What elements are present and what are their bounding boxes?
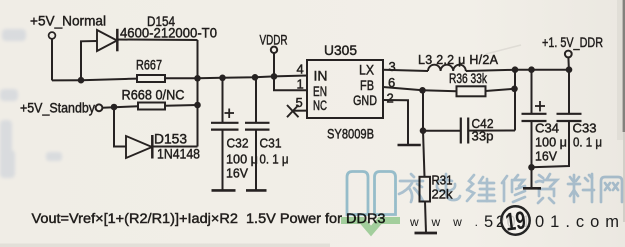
node +5V_Standby terminal (96, 104, 103, 111)
watermark char 电 (437, 174, 460, 200)
watermark char 维 (467, 175, 495, 201)
wire R31 top lead (423, 131, 425, 177)
svg-text:Vout=Vref×[1+(R2/R1)]+Iadj×R2: Vout=Vref×[1+(R2/R1)]+Iadj×R2 1.5V Power… (32, 211, 386, 226)
svg-text:+5V_Normal: +5V_Normal (30, 13, 106, 29)
wire standby to R668 (102, 106, 138, 108)
svg-text:2: 2 (387, 90, 394, 105)
svg-text:100 μ: 100 μ (535, 135, 567, 150)
ic U305 body (307, 60, 383, 118)
watermark char 修 (502, 175, 525, 202)
svg-text:+5V_Standby: +5V_Standby (20, 100, 95, 116)
node junction LX/C34 (528, 66, 535, 73)
svg-text:U305: U305 (324, 42, 357, 58)
wire R668 to bus (165, 104, 198, 107)
node junction C34/C33 bottom (528, 164, 535, 171)
svg-text:SY8009B: SY8009B (327, 126, 374, 142)
svg-text:VDDR: VDDR (260, 32, 288, 48)
wire C33 link (532, 121, 570, 167)
resistor R36 (457, 86, 486, 96)
wire VDDR down (273, 53, 275, 76)
resistor R31 (420, 177, 431, 202)
watermark char 网 (601, 177, 622, 202)
wire C31 top lead (255, 77, 257, 123)
capacitor C32 (211, 122, 239, 124)
wire vertical bus x198 (197, 40, 199, 147)
node junction rail/C32 (219, 75, 226, 82)
svg-text:D153: D153 (154, 131, 187, 147)
wire D154 anode riser (81, 41, 97, 80)
watermark char 资 (536, 174, 557, 203)
svg-text:4600-212000-T0: 4600-212000-T0 (120, 25, 217, 41)
svg-text:C33: C33 (573, 121, 597, 136)
wire R36 to vertical (486, 89, 515, 91)
capacitor C42 (460, 118, 462, 144)
svg-text:R668 0/NC: R668 0/NC (122, 87, 185, 103)
wire LX output line (466, 70, 515, 71)
pin 5 X mark (287, 105, 299, 117)
watermark char 料 (568, 174, 594, 202)
svg-text:16V: 16V (535, 149, 557, 164)
node +1.5V_DDR terminal (565, 51, 572, 58)
faint diagonal smudge (486, 45, 521, 54)
wire C42 right lead (468, 130, 515, 132)
pin 5 NC stub (293, 110, 307, 112)
ground C34 (523, 187, 541, 190)
svg-text:4: 4 (297, 62, 304, 77)
left margin ghost marks (0, 29, 62, 178)
wire FB node down to C42 (422, 90, 424, 130)
wire R31 bottom lead (425, 202, 426, 233)
node junction C42/R31 (420, 127, 427, 134)
svg-text:IN: IN (314, 68, 328, 84)
capacitor C32 polarity + (225, 109, 235, 119)
wire main rail right of R667 (165, 76, 307, 79)
svg-text:C31: C31 (260, 136, 282, 151)
node junction rail/C31 (252, 74, 259, 81)
svg-text:NC: NC (313, 97, 327, 113)
watermark char 家 (399, 174, 423, 202)
capacitor C31 (245, 122, 270, 124)
node junction LX/feedback (512, 66, 519, 73)
diode D154 (97, 30, 117, 51)
wire D154 cathode to right (117, 39, 197, 42)
watermark book icon base swoosh (341, 221, 400, 232)
resistor R667 (137, 75, 165, 82)
svg-text:0. 1 μ: 0. 1 μ (573, 135, 602, 150)
resistor R668 (138, 103, 165, 110)
bottom edge smudge (0, 244, 330, 247)
watermark book icon pages (347, 172, 396, 215)
capacitor C34 (522, 113, 547, 115)
svg-text:C34: C34 (535, 121, 559, 136)
ground C31 (246, 189, 267, 192)
wire LX stub (383, 70, 428, 71)
svg-text:0. 1 μ: 0. 1 μ (260, 152, 289, 167)
node junction rail/VDDR (271, 73, 278, 80)
wire +5V_Normal down (51, 39, 53, 80)
svg-text:3: 3 (389, 59, 396, 74)
wire EN branch (274, 76, 307, 90)
wire C32 top lead (222, 78, 224, 123)
node junction rail/bus (194, 75, 201, 82)
wire C31 bottom lead (255, 130, 257, 191)
svg-text:+1. 5V_DDR: +1. 5V_DDR (542, 34, 603, 50)
node junction standby/D153 (111, 104, 118, 111)
svg-text:0 1 . c o m: 0 1 . c o m (535, 213, 619, 231)
wire C34 top lead (531, 70, 533, 114)
svg-text:GND: GND (353, 92, 377, 108)
svg-text:19: 19 (504, 206, 527, 236)
ground R31 (415, 232, 438, 235)
page number circled 19 (501, 206, 529, 234)
svg-text:LX: LX (359, 62, 375, 78)
node VDDR terminal (271, 47, 277, 53)
node junction LX/C33 (566, 66, 573, 73)
wire C32 bottom lead (222, 130, 224, 191)
wire terminal down (567, 57, 570, 69)
svg-text:1N4148: 1N4148 (157, 146, 200, 162)
wire GND stub (383, 100, 408, 145)
capacitor C33 (557, 113, 582, 115)
wire C33 top lead (568, 70, 570, 114)
right scan edge (617, 0, 623, 140)
watermark group (341, 172, 622, 237)
node junction rail/D154 (78, 77, 85, 84)
svg-text:R36 33k: R36 33k (449, 71, 487, 86)
svg-text:1: 1 (297, 77, 304, 92)
wire FB stub (383, 87, 457, 91)
svg-text:FB: FB (360, 77, 374, 93)
svg-text:L3 2.2 μ H/2A: L3 2.2 μ H/2A (418, 53, 499, 67)
ground U305 GND (398, 144, 421, 147)
wire C42 left lead (423, 130, 460, 132)
diode D153 (126, 136, 152, 158)
node junction R668/bus (194, 102, 201, 109)
wire D153 anode drop (114, 107, 126, 147)
wire D153 cathode to bus (152, 146, 198, 148)
node junction FB/R31 (419, 87, 426, 94)
capacitor C34 polarity + (535, 101, 545, 111)
ground C32 (212, 189, 236, 192)
node +5V_Normal terminal (49, 32, 56, 39)
wire vertical x515 (514, 70, 516, 131)
svg-text:16V: 16V (226, 166, 248, 181)
node junction FB/vertical (511, 86, 518, 93)
inductor L3 (428, 65, 466, 71)
wire main rail left (52, 79, 137, 81)
svg-text:R667: R667 (136, 57, 162, 73)
svg-text:100 μ: 100 μ (226, 152, 258, 167)
svg-text:C32: C32 (227, 136, 249, 151)
wire C34 bottom lead (531, 121, 533, 188)
